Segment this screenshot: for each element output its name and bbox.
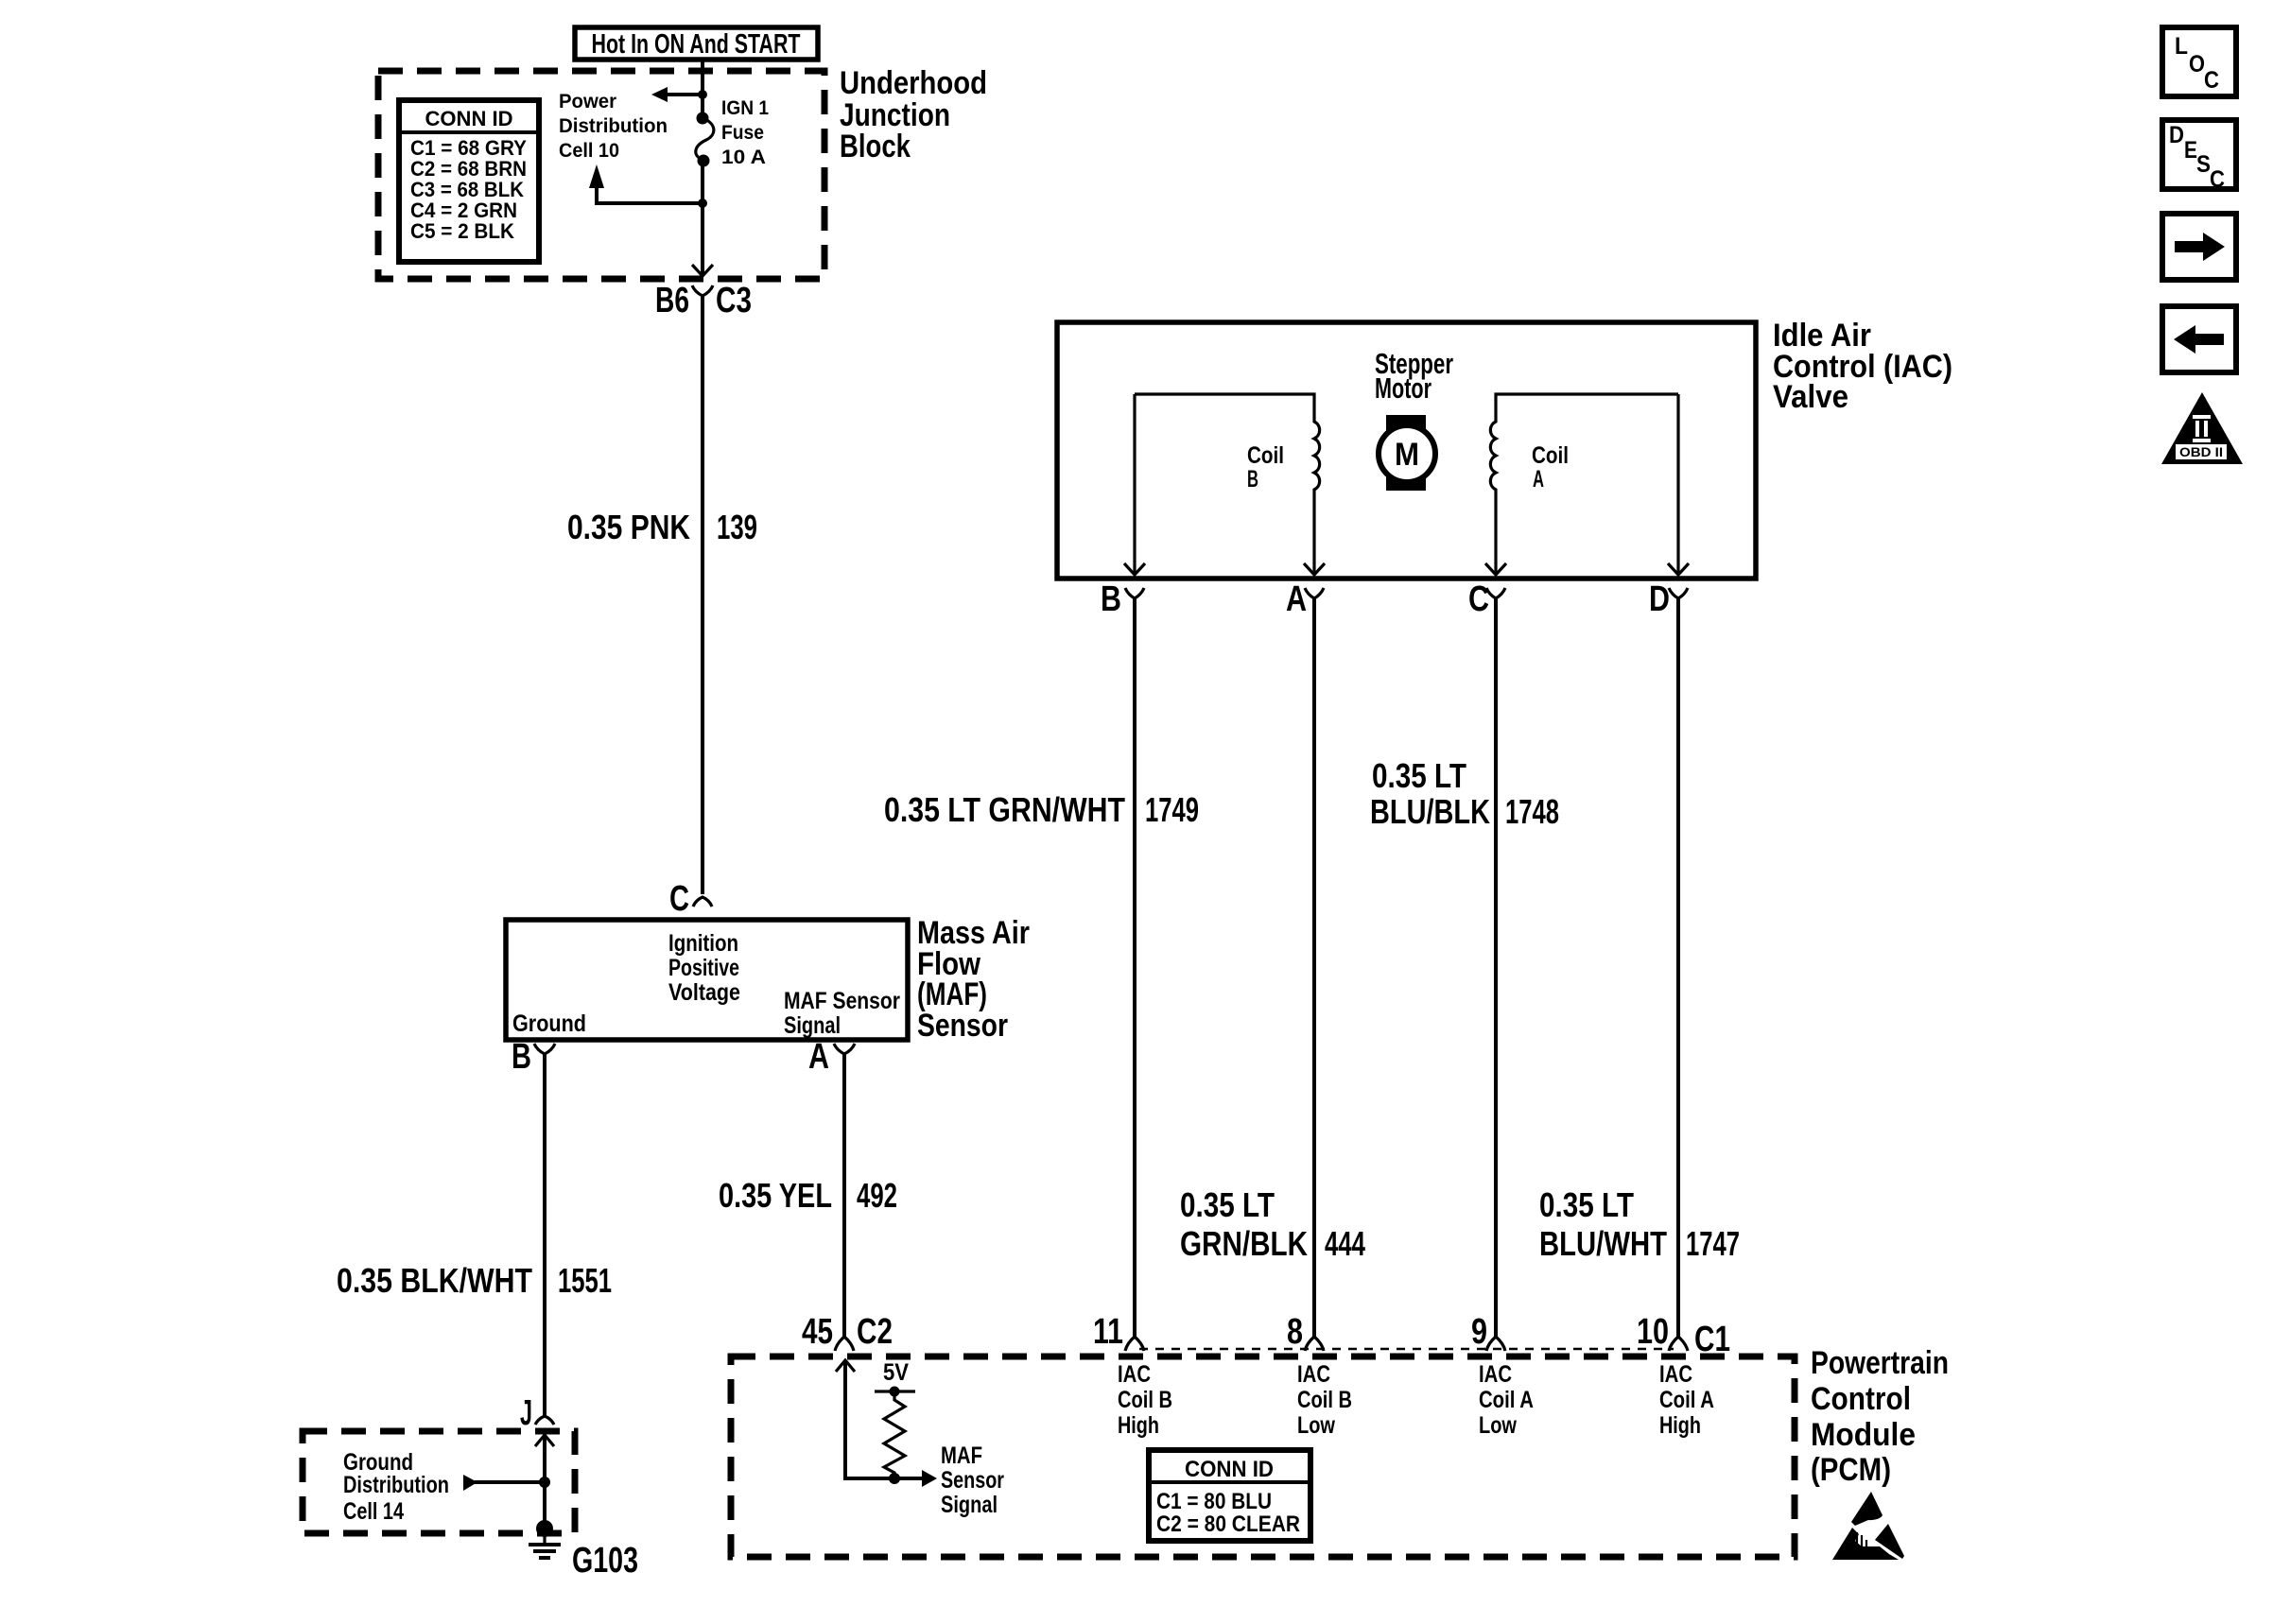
svg-text:Power: Power — [559, 91, 616, 112]
svg-text:45: 45 — [802, 1312, 833, 1352]
connector B at IAC valve — [1101, 579, 1144, 1339]
label: IAC Coil A High — [1659, 1361, 1714, 1439]
svg-text:IAC: IAC — [1297, 1361, 1330, 1388]
svg-text:Sensor: Sensor — [941, 1467, 1004, 1494]
Idle Air Control valve box — [1057, 322, 1756, 579]
svg-text:0.35 PNK: 0.35 PNK — [567, 508, 690, 546]
svg-text:BLU/WHT: BLU/WHT — [1539, 1224, 1667, 1263]
svg-text:1551: 1551 — [558, 1261, 612, 1300]
svg-text:492: 492 — [857, 1176, 897, 1215]
svg-text:Ground: Ground — [512, 1011, 586, 1037]
svg-text:Sensor: Sensor — [917, 1008, 1008, 1044]
svg-text:C1 = 80 BLU: C1 = 80 BLU — [1156, 1489, 1272, 1514]
wire: branch to power distribution (left arrow) — [651, 87, 707, 102]
ground symbol G103 — [529, 1520, 638, 1581]
svg-text:Module: Module — [1811, 1417, 1916, 1453]
label: 0.35 YEL | 492 — [719, 1176, 897, 1215]
coil A winding — [1490, 394, 1678, 573]
coil B winding — [1135, 394, 1320, 573]
CONN ID table (junction block) — [399, 100, 539, 262]
arrowhead coil wire D at IAC box bottom — [1668, 563, 1689, 575]
svg-text:Signal: Signal — [784, 1012, 841, 1039]
svg-text:Cell 14: Cell 14 — [343, 1498, 404, 1525]
svg-text:Coil B: Coil B — [1297, 1387, 1352, 1413]
connector D at IAC valve — [1649, 579, 1688, 1339]
connector C at IAC valve — [1468, 579, 1505, 1339]
svg-text:0.35 LT: 0.35 LT — [1372, 756, 1466, 795]
svg-text:C: C — [2210, 166, 2225, 193]
label: IAC Coil A Low — [1479, 1361, 1534, 1439]
svg-text:Ignition: Ignition — [668, 930, 738, 957]
svg-text:C: C — [2204, 67, 2219, 94]
label: IGN 1 Fuse 10 A — [721, 97, 769, 168]
svg-text:O: O — [2189, 51, 2205, 78]
svg-text:1747: 1747 — [1686, 1224, 1740, 1263]
label: Powertrain Control Module (PCM) — [1811, 1345, 1949, 1488]
svg-text:Distribution: Distribution — [343, 1472, 449, 1498]
svg-text:D: D — [2169, 122, 2184, 148]
svg-text:IAC: IAC — [1118, 1361, 1151, 1388]
svg-text:Valve: Valve — [1773, 379, 1848, 415]
label: Ground Distribution Cell 14 — [343, 1449, 449, 1525]
connector A at MAF bottom — [808, 1037, 855, 1077]
svg-text:C: C — [669, 879, 689, 919]
power feed box "Hot In ON And START" — [575, 27, 818, 60]
connector B at MAF bottom — [512, 1037, 555, 1077]
label: Idle Air Control (IAC) Valve — [1773, 318, 1952, 415]
connector C at MAF sensor — [669, 879, 712, 919]
stepper motor M — [1379, 415, 1435, 491]
svg-text:BLU/BLK: BLU/BLK — [1370, 792, 1490, 831]
svg-text:139: 139 — [717, 508, 757, 546]
svg-text:L: L — [2175, 33, 2188, 60]
svg-text:1749: 1749 — [1145, 790, 1199, 829]
svg-text:J: J — [520, 1393, 532, 1433]
Powertrain Control Module dashed box — [731, 1356, 1795, 1557]
svg-text:0.35 LT: 0.35 LT — [1180, 1185, 1275, 1224]
svg-text:Positive: Positive — [668, 955, 739, 981]
svg-text:0.35 YEL: 0.35 YEL — [719, 1176, 832, 1215]
svg-text:Coil: Coil — [1247, 442, 1284, 469]
svg-text:5V: 5V — [883, 1359, 909, 1386]
svg-text:Motor: Motor — [1375, 371, 1431, 405]
svg-text:B6: B6 — [655, 281, 689, 320]
svg-text:Signal: Signal — [941, 1492, 998, 1518]
label: 0.35 BLK/WHT | 1551 — [337, 1261, 612, 1300]
OBD II icon — [2161, 392, 2243, 464]
svg-text:B: B — [512, 1037, 531, 1077]
connector pin 9 at PCM — [1471, 1312, 1505, 1352]
label: IAC Coil B High — [1118, 1361, 1172, 1439]
connector pin 8 at PCM — [1287, 1312, 1324, 1352]
wire: fuse output down through junction block — [701, 161, 704, 274]
svg-text:A: A — [808, 1037, 829, 1077]
svg-text:Coil A: Coil A — [1479, 1387, 1534, 1413]
svg-text:IGN 1: IGN 1 — [721, 97, 769, 119]
label: Mass Air Flow (MAF) Sensor — [917, 915, 1030, 1044]
svg-text:Fuse: Fuse — [721, 122, 764, 144]
svg-text:C: C — [1468, 579, 1489, 619]
svg-text:C1: C1 — [1694, 1320, 1730, 1359]
svg-text:M: M — [1395, 437, 1419, 473]
arrowhead coil wire C at IAC box bottom — [1485, 563, 1506, 575]
svg-text:8: 8 — [1287, 1312, 1303, 1352]
svg-text:Hot In ON And START: Hot In ON And START — [592, 29, 801, 60]
label: MAF Sensor Signal (inside MAF box) — [784, 988, 900, 1039]
arrowhead coil wire B at IAC box bottom — [1124, 563, 1145, 575]
svg-text:444: 444 — [1325, 1224, 1365, 1263]
svg-text:IAC: IAC — [1659, 1361, 1692, 1388]
svg-text:(PCM): (PCM) — [1811, 1452, 1891, 1488]
svg-text:11: 11 — [1093, 1312, 1123, 1352]
svg-text:E: E — [2184, 137, 2197, 164]
wire 0.35 YEL 492 (MAF signal) — [842, 1052, 846, 1339]
connector row dashed line (C1) — [1139, 1348, 1674, 1351]
5V supply tick — [875, 1359, 915, 1397]
svg-text:S: S — [2196, 151, 2211, 178]
connector A at IAC valve — [1286, 579, 1324, 1339]
DESC icon — [2162, 120, 2236, 193]
svg-text:CONN ID: CONN ID — [1185, 1457, 1274, 1482]
label: 0.35 LT BLU/WHT | 1747 — [1539, 1185, 1740, 1263]
svg-text:Coil: Coil — [1532, 442, 1569, 469]
wire 0.35 BLK/WHT 1551 (MAF ground) — [543, 1052, 547, 1416]
next arrow icon — [2162, 214, 2236, 280]
connector 45/C2 at PCM — [802, 1312, 893, 1352]
label: 0.35 LT GRN/BLK | 444 — [1180, 1185, 1365, 1263]
arrowhead coil wire A at IAC box bottom — [1304, 563, 1325, 575]
prev arrow icon — [2162, 306, 2236, 372]
svg-text:Low: Low — [1479, 1412, 1517, 1439]
label: Power Distribution Cell 10 — [559, 91, 668, 162]
svg-text:A: A — [1286, 579, 1307, 619]
svg-text:High: High — [1118, 1412, 1159, 1439]
svg-text:MAF: MAF — [941, 1443, 982, 1469]
ground distribution dashed box — [303, 1431, 575, 1533]
connector B6/C3 — [655, 281, 752, 321]
connector pin 10 at PCM — [1637, 1312, 1688, 1352]
svg-text:Powertrain: Powertrain — [1811, 1345, 1949, 1381]
svg-text:C3: C3 — [716, 281, 752, 320]
LOC icon — [2162, 27, 2236, 96]
wire from pin 45 to resistor junction — [845, 1360, 893, 1478]
svg-text:Coil B: Coil B — [1118, 1387, 1172, 1413]
svg-text:D: D — [1649, 579, 1670, 619]
svg-text:MAF Sensor: MAF Sensor — [784, 988, 900, 1014]
svg-text:Low: Low — [1297, 1412, 1335, 1439]
label: 0.35 LT BLU/BLK | 1748 — [1370, 756, 1559, 831]
svg-text:0.35 LT: 0.35 LT — [1539, 1185, 1634, 1224]
svg-text:1748: 1748 — [1505, 792, 1559, 831]
svg-text:C2: C2 — [857, 1312, 893, 1352]
svg-text:Block: Block — [840, 129, 911, 164]
svg-text:High: High — [1659, 1412, 1701, 1439]
svg-text:10: 10 — [1637, 1312, 1669, 1352]
svg-text:9: 9 — [1471, 1312, 1487, 1352]
svg-text:0.35 LT GRN/WHT: 0.35 LT GRN/WHT — [884, 790, 1125, 829]
label: Underhood Junction Block — [840, 65, 987, 164]
svg-text:GRN/BLK: GRN/BLK — [1180, 1224, 1308, 1263]
pull-up resistor — [884, 1391, 905, 1478]
wire inside ground box down to G103 — [543, 1435, 547, 1527]
label: Stepper Motor — [1375, 347, 1453, 405]
svg-text:CONN ID: CONN ID — [425, 107, 513, 130]
CONN ID table (PCM) — [1149, 1450, 1310, 1541]
svg-text:B: B — [1247, 466, 1258, 492]
wire: branch to cell 10 (up arrow) — [589, 164, 707, 208]
svg-text:10 A: 10 A — [721, 147, 766, 168]
svg-text:Cell 10: Cell 10 — [559, 140, 619, 162]
svg-text:Coil A: Coil A — [1659, 1387, 1714, 1413]
svg-text:Control: Control — [1811, 1381, 1911, 1417]
MAF sensor signal arrow (inside PCM) — [889, 1470, 937, 1487]
arrowhead entering ground box — [535, 1435, 554, 1446]
wire: ignition feed from Hot In down to fuse — [701, 60, 704, 118]
ESD sensitivity symbol — [1832, 1492, 1904, 1560]
label: IAC Coil B Low — [1297, 1361, 1352, 1439]
arrow from ground distribution cell — [463, 1475, 550, 1491]
connector J — [520, 1393, 554, 1433]
label: 0.35 LT GRN/WHT | 1749 — [884, 790, 1199, 829]
svg-text:IAC: IAC — [1479, 1361, 1512, 1388]
label: 0.35 PNK | 139 — [567, 508, 757, 546]
svg-text:Distribution: Distribution — [559, 115, 668, 137]
wire 0.35 PNK 139 — [701, 317, 704, 894]
svg-text:0.35 BLK/WHT: 0.35 BLK/WHT — [337, 1261, 532, 1300]
svg-text:B: B — [1101, 579, 1121, 619]
svg-text:Voltage: Voltage — [668, 979, 740, 1006]
svg-text:C5 = 2 BLK: C5 = 2 BLK — [410, 219, 514, 243]
svg-text:A: A — [1533, 466, 1544, 492]
svg-text:Underhood: Underhood — [840, 65, 987, 101]
underhood junction block dashed box — [378, 71, 824, 279]
svg-text:OBD II: OBD II — [2179, 444, 2223, 459]
MAF sensor box — [506, 920, 908, 1040]
arrowhead into PCM at pin 45 — [836, 1360, 855, 1372]
arrowhead at junction block exit — [692, 265, 713, 276]
svg-text:G103: G103 — [572, 1541, 638, 1581]
svg-text:C2 = 80 CLEAR: C2 = 80 CLEAR — [1156, 1512, 1300, 1537]
label: MAF Sensor Signal (PCM) — [941, 1443, 1004, 1518]
fuse IGN 1 10 A element — [696, 112, 714, 167]
label: Ignition Positive Voltage — [668, 930, 740, 1006]
connector pin 11 at PCM — [1093, 1312, 1144, 1352]
